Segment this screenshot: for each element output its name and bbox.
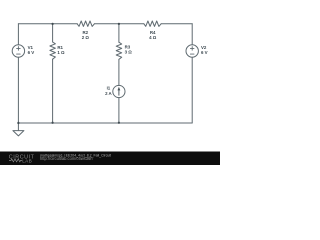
wire R1 branch lower <box>52 59 54 123</box>
wire bottom rail <box>18 122 192 124</box>
voltage source V2 <box>186 45 198 57</box>
node dot bottom I1 junction <box>118 122 120 124</box>
node dot top R1 junction <box>51 23 53 25</box>
resistor R4 <box>144 21 161 26</box>
svg-text:http://circuitlab.com/c6ws36h: http://circuitlab.com/c6ws36h <box>40 156 93 161</box>
wire right branch lower <box>191 57 193 123</box>
footer bar <box>0 152 220 166</box>
svg-text:6 V: 6 V <box>28 50 35 55</box>
wire left branch upper <box>17 24 19 45</box>
svg-text:2 A: 2 A <box>105 91 112 96</box>
current source I1 arrow <box>118 87 121 91</box>
wire middle branch lower <box>118 98 120 123</box>
svg-text:3 Ω: 3 Ω <box>125 50 133 55</box>
node dot top R3 junction <box>118 23 120 25</box>
wire top rail middle segment <box>94 23 143 25</box>
CircuitLab logo wordmark <box>9 154 35 163</box>
wire left branch lower <box>17 57 19 123</box>
svg-text:2 Ω: 2 Ω <box>82 35 90 40</box>
node dot bottom R1 junction <box>51 122 53 124</box>
wire R1 branch upper <box>52 24 54 42</box>
wire middle branch upper <box>118 24 120 42</box>
svg-text:1 Ω: 1 Ω <box>57 50 65 55</box>
resistor R3 <box>116 42 122 59</box>
current source I1 <box>113 85 125 97</box>
wire right branch upper <box>191 24 193 45</box>
resistor R2 <box>77 21 94 26</box>
svg-text:LAB: LAB <box>22 158 32 163</box>
svg-text:6 V: 6 V <box>201 50 208 55</box>
wire middle branch between R3 and I1 <box>118 59 120 85</box>
CircuitLab logo zigzag <box>9 159 22 162</box>
resistor R1 <box>50 42 56 59</box>
ground <box>13 123 24 136</box>
svg-text:4 Ω: 4 Ω <box>149 35 157 40</box>
node dot bottom ground junction <box>17 122 19 124</box>
svg-text:I1: I1 <box>107 86 111 91</box>
wire top rail right segment <box>161 23 192 25</box>
voltage source V1 <box>12 45 24 57</box>
wire top rail left segment <box>18 23 77 25</box>
